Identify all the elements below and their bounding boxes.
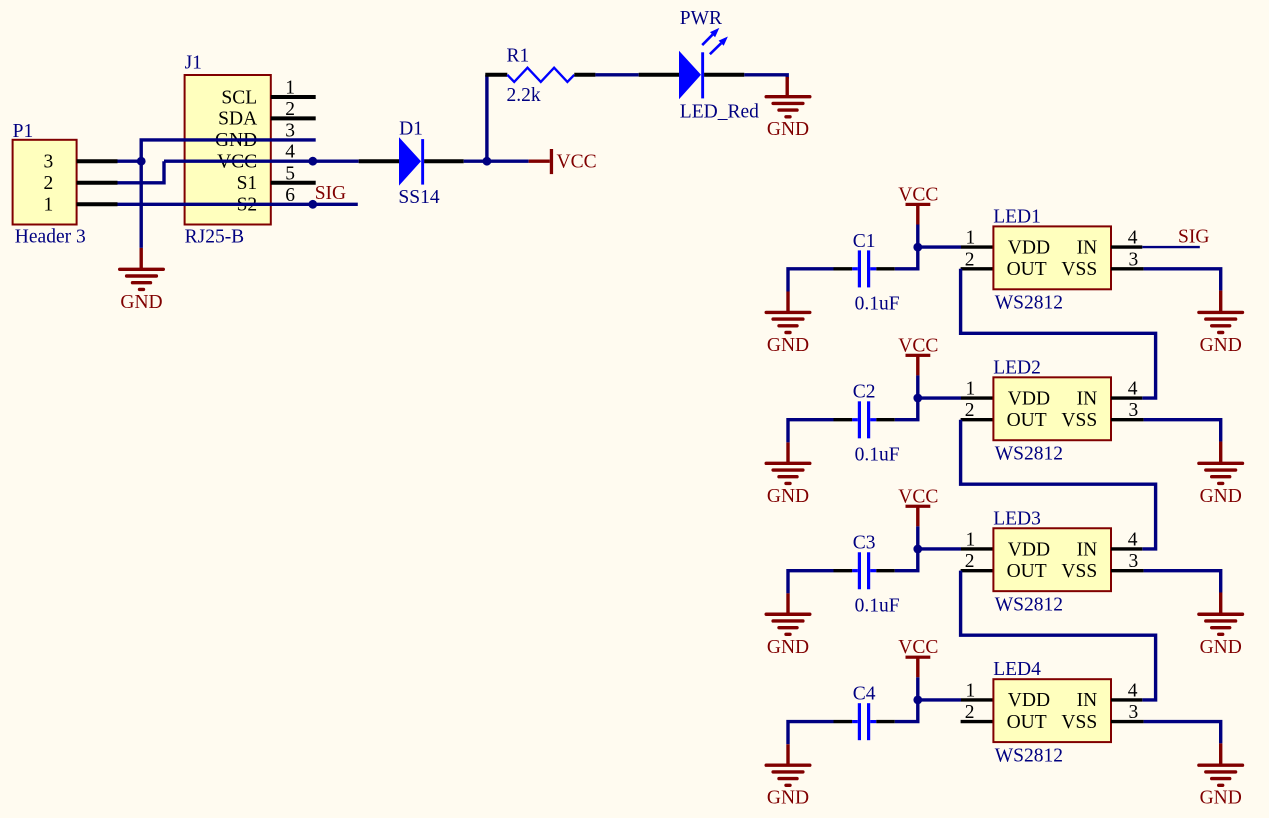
svg-text:VDD: VDD	[1008, 539, 1050, 560]
ground	[120, 268, 164, 271]
svg-text:GND: GND	[1200, 335, 1242, 356]
wire VCC to junction	[916, 225, 919, 248]
svg-text:1: 1	[44, 195, 54, 216]
svg-text:LED_Red: LED_Red	[680, 101, 759, 122]
svg-text:1: 1	[966, 228, 976, 249]
IC LED4 pin 3	[1111, 720, 1144, 723]
svg-text:4: 4	[1128, 228, 1138, 249]
svg-text:LED1: LED1	[993, 206, 1041, 227]
svg-text:VSS: VSS	[1061, 712, 1097, 733]
wire pin 3 to ground	[1144, 269, 1221, 291]
wire LED1 OUT to LED2 IN	[961, 269, 1156, 398]
LED PWR cathode stub	[704, 73, 744, 77]
svg-text:IN: IN	[1077, 690, 1098, 711]
svg-text:4: 4	[1128, 529, 1138, 550]
svg-text:GND: GND	[1200, 788, 1242, 809]
svg-text:P1: P1	[13, 121, 34, 142]
svg-text:OUT: OUT	[1007, 561, 1047, 582]
wire cap to ground	[788, 269, 834, 292]
svg-text:S1: S1	[237, 173, 258, 194]
ground stub left	[786, 292, 789, 313]
svg-text:J1: J1	[185, 53, 202, 74]
IC LED4 WS2812	[993, 679, 1111, 742]
IC LED1 pin 3	[1111, 267, 1144, 270]
junction VCC node	[483, 157, 492, 166]
LED PWR pin stub	[639, 73, 680, 77]
svg-text:2: 2	[44, 173, 54, 194]
svg-text:VDD: VDD	[1008, 388, 1050, 409]
svg-text:VDD: VDD	[1008, 690, 1050, 711]
ground stub right	[1219, 743, 1222, 765]
IC LED1 pin 2	[961, 267, 994, 270]
svg-text:RJ25-B: RJ25-B	[185, 227, 245, 248]
IC LED4 pin 1	[961, 698, 993, 701]
IC LED2 pin 2	[961, 418, 994, 421]
wire junction to pin 1	[918, 396, 961, 399]
IC LED3 pin 2	[961, 569, 994, 572]
wire LED to GND	[744, 75, 787, 79]
svg-text:IN: IN	[1077, 539, 1098, 560]
wire cap to ground	[788, 420, 834, 443]
svg-text:GND: GND	[767, 335, 809, 356]
svg-text:LED2: LED2	[993, 357, 1041, 378]
wire cap to junction	[895, 247, 918, 269]
IC LED2 WS2812	[993, 377, 1111, 440]
IC LED3 WS2812	[993, 528, 1111, 591]
junction P1.3/GND	[137, 157, 146, 166]
wire LED3 OUT to LED4 IN	[961, 571, 1156, 700]
ground	[766, 613, 810, 616]
svg-text:2: 2	[965, 249, 975, 270]
svg-text:4: 4	[1128, 379, 1138, 400]
svg-text:3: 3	[44, 152, 54, 173]
wire pin 3 to ground	[1144, 722, 1221, 744]
svg-text:IN: IN	[1077, 388, 1098, 409]
svg-text:VCC: VCC	[557, 152, 597, 173]
wire SIG in	[1142, 246, 1200, 248]
svg-text:R1: R1	[507, 46, 530, 67]
svg-text:VSS: VSS	[1061, 259, 1097, 280]
svg-text:WS2812: WS2812	[995, 444, 1063, 465]
svg-text:LED3: LED3	[993, 508, 1041, 529]
svg-text:OUT: OUT	[1007, 259, 1047, 280]
svg-text:VCC: VCC	[898, 335, 938, 356]
diode D1 pin stubs	[359, 159, 401, 163]
wire R1 to LED	[595, 73, 638, 76]
IC LED2 pin 3	[1111, 418, 1144, 421]
wire VCC row through J1	[164, 159, 359, 162]
wire junction to pin 1	[918, 245, 961, 248]
svg-text:WS2812: WS2812	[995, 594, 1063, 615]
wire cap to ground	[788, 722, 834, 745]
LED PWR (LED_Red)	[679, 51, 701, 99]
ground under P1: wire stub	[139, 248, 142, 269]
ground stub left	[786, 442, 789, 463]
junction VDD node 2	[913, 394, 922, 403]
IC LED1 WS2812	[993, 226, 1111, 289]
wire junction up to R1	[485, 75, 488, 161]
svg-text:1: 1	[966, 529, 976, 550]
svg-text:SIG: SIG	[1178, 227, 1209, 248]
IC LED3 pin 3	[1111, 569, 1144, 572]
connector J1	[185, 75, 271, 225]
svg-text:OUT: OUT	[1007, 712, 1047, 733]
svg-text:C2: C2	[853, 382, 876, 403]
ground	[766, 311, 810, 314]
svg-text:GND: GND	[120, 292, 162, 313]
svg-text:GND: GND	[767, 486, 809, 507]
svg-text:VCC: VCC	[898, 637, 938, 658]
ground stub right	[1219, 592, 1222, 614]
wire VCC to junction	[916, 526, 919, 549]
svg-text:IN: IN	[1077, 237, 1098, 258]
ground stub right	[1219, 291, 1222, 313]
resistor R1	[485, 73, 507, 77]
junction VDD node 1	[913, 243, 922, 252]
IC LED3 pin 1	[961, 547, 993, 550]
ground stub left	[786, 593, 789, 614]
svg-text:2: 2	[965, 551, 975, 572]
svg-text:3: 3	[1128, 400, 1138, 421]
svg-text:0.1uF: 0.1uF	[855, 444, 900, 465]
IC LED4 pin 4	[1111, 698, 1142, 701]
svg-text:C4: C4	[853, 684, 876, 705]
ground stub PWR	[786, 77, 789, 97]
ground	[766, 462, 810, 465]
svg-text:VDD: VDD	[1008, 237, 1050, 258]
ground	[1199, 311, 1243, 314]
junction VDD node 4	[913, 695, 922, 704]
wire junction to pin 1	[918, 698, 961, 701]
wire SIG row through J1	[118, 203, 358, 206]
svg-text:2.2k: 2.2k	[507, 85, 541, 106]
wire junction to pin 1	[918, 547, 961, 550]
wire P1.2 up to VCC row	[118, 161, 165, 183]
wire junction to VCC port	[487, 159, 529, 162]
svg-text:0.1uF: 0.1uF	[855, 595, 900, 616]
svg-text:VSS: VSS	[1061, 561, 1097, 582]
svg-text:C3: C3	[853, 533, 876, 554]
power port VCC	[529, 159, 550, 162]
wire cap to junction	[895, 549, 918, 571]
svg-text:1: 1	[966, 379, 976, 400]
wire D1 to junction	[464, 159, 487, 162]
wire pin 3 to ground	[1144, 571, 1221, 593]
svg-text:PWR: PWR	[680, 8, 722, 29]
wire pin 3 to ground	[1144, 420, 1221, 442]
svg-text:2: 2	[965, 400, 975, 421]
IC LED4 pin 2	[961, 720, 994, 723]
ground	[1199, 763, 1243, 766]
svg-text:SS14: SS14	[398, 187, 439, 208]
ground	[766, 763, 810, 766]
svg-text:1: 1	[966, 680, 976, 701]
wire P1.3 to GND vertical	[118, 159, 143, 162]
svg-text:SDA: SDA	[218, 109, 257, 130]
svg-text:VCC: VCC	[898, 486, 938, 507]
svg-text:GND: GND	[1200, 637, 1242, 658]
IC LED1 pin 4	[1111, 245, 1142, 248]
IC LED2 pin 4	[1111, 396, 1142, 399]
ground stub right	[1219, 442, 1222, 464]
IC LED3 pin 4	[1111, 547, 1142, 550]
ground	[1199, 462, 1243, 465]
svg-text:0.1uF: 0.1uF	[855, 293, 900, 314]
wire GND net: J1.3 to vertical	[141, 140, 316, 248]
svg-text:OUT: OUT	[1007, 410, 1047, 431]
svg-text:WS2812: WS2812	[995, 745, 1063, 766]
svg-text:2: 2	[965, 702, 975, 723]
svg-text:VSS: VSS	[1061, 410, 1097, 431]
IC LED1 pin 1	[961, 245, 993, 248]
diode D1	[399, 137, 421, 185]
svg-text:3: 3	[1128, 249, 1138, 270]
junction J1.6	[308, 200, 317, 209]
wire VCC to junction	[916, 375, 919, 398]
svg-text:GND: GND	[767, 119, 809, 140]
svg-text:GND: GND	[767, 788, 809, 809]
wire LED2 OUT to LED3 IN	[961, 420, 1156, 549]
svg-text:3: 3	[1128, 702, 1138, 723]
svg-text:SCL: SCL	[221, 87, 257, 108]
wire cap to junction	[895, 398, 918, 420]
IC LED2 pin 1	[961, 396, 993, 399]
junction VDD node 3	[913, 545, 922, 554]
junction J1.4	[308, 157, 317, 166]
wire cap to ground	[788, 571, 834, 594]
svg-text:C1: C1	[853, 231, 876, 252]
ground	[1199, 613, 1243, 616]
wire VCC to junction	[916, 677, 919, 700]
ground stub left	[786, 744, 789, 765]
svg-text:LED4: LED4	[993, 659, 1041, 680]
wire cap to junction	[895, 700, 918, 722]
svg-text:SIG: SIG	[315, 183, 346, 204]
svg-text:VCC: VCC	[898, 184, 938, 205]
connector P1	[13, 140, 77, 225]
svg-text:Header 3: Header 3	[15, 227, 86, 248]
svg-text:WS2812: WS2812	[995, 293, 1063, 314]
svg-text:GND: GND	[1200, 486, 1242, 507]
svg-text:GND: GND	[767, 637, 809, 658]
svg-text:3: 3	[1128, 551, 1138, 572]
svg-text:4: 4	[1128, 680, 1138, 701]
svg-text:D1: D1	[399, 119, 423, 140]
ground	[766, 95, 810, 98]
